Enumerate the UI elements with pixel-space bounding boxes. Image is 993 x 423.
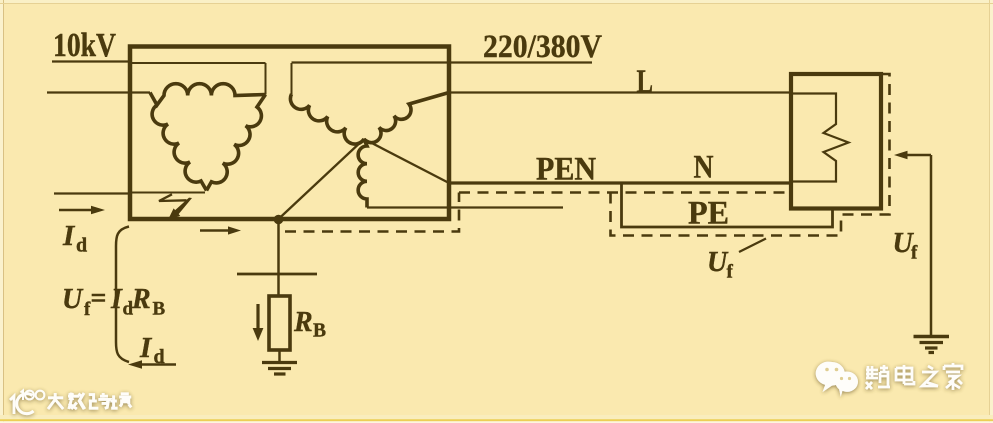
- svg-text:=: =: [91, 283, 107, 314]
- svg-text:10kV: 10kV: [53, 27, 116, 64]
- svg-text:d: d: [123, 299, 134, 320]
- svg-text:PE: PE: [688, 196, 729, 232]
- svg-text:f: f: [727, 262, 734, 283]
- svg-text:N: N: [694, 150, 714, 186]
- svg-text:I: I: [62, 220, 76, 252]
- svg-text:I: I: [110, 284, 123, 315]
- svg-text:PEN: PEN: [536, 152, 596, 188]
- svg-text:d: d: [76, 235, 87, 257]
- svg-text:d: d: [154, 346, 165, 368]
- svg-text:f: f: [84, 299, 91, 320]
- svg-text:220/380V: 220/380V: [483, 29, 602, 65]
- svg-text:B: B: [153, 299, 166, 320]
- svg-text:R: R: [131, 284, 151, 315]
- svg-text:U: U: [62, 284, 84, 315]
- svg-text:f: f: [911, 243, 918, 264]
- svg-text:B: B: [313, 321, 326, 342]
- svg-text:L: L: [637, 64, 654, 100]
- svg-text:I: I: [139, 332, 153, 364]
- svg-text:R: R: [293, 307, 313, 338]
